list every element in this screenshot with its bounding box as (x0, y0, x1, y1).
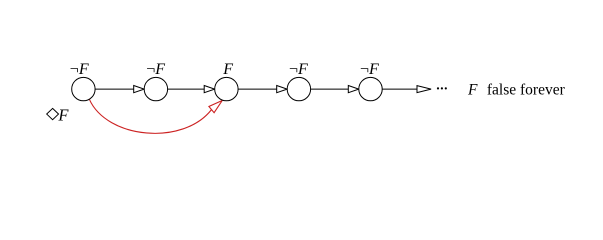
svg-text:¬F: ¬F (289, 61, 308, 78)
svg-text:F: F (222, 61, 233, 78)
svg-text:¬F: ¬F (146, 61, 165, 78)
svg-text:false forever: false forever (487, 81, 566, 98)
svg-text:F: F (57, 106, 69, 125)
svg-text:F: F (467, 81, 478, 98)
svg-text:¬F: ¬F (70, 61, 89, 78)
svg-text:¬F: ¬F (360, 61, 379, 78)
